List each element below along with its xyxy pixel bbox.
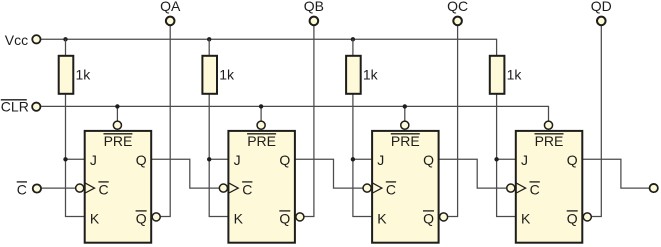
U1 pin C label <box>98 182 108 198</box>
svg-text:K: K <box>377 210 387 226</box>
junction dot CLR/PRE U3 <box>403 104 407 108</box>
U1 PRE bubble <box>113 121 121 129</box>
wire Q3bar to QC terminal <box>448 21 457 217</box>
wire R4 bottom to J/K tie of U4 <box>497 94 518 217</box>
junction dot J/K tie U3 <box>351 157 355 161</box>
svg-text:Vcc: Vcc <box>5 32 28 48</box>
Vcc label <box>5 32 28 48</box>
svg-text:K: K <box>521 210 531 226</box>
svg-text:Q: Q <box>423 210 434 226</box>
U4 pin Q <box>567 152 578 168</box>
wire J input U1 <box>66 158 87 160</box>
U1 Qbar bubble <box>152 213 160 221</box>
wire R1 bottom to J/K tie of U1 <box>66 94 87 217</box>
carry output terminal <box>650 184 658 192</box>
svg-text:CLR: CLR <box>1 98 29 114</box>
resistor R3 1k <box>346 56 379 94</box>
U2 PRE label <box>247 133 276 149</box>
U1 pin J <box>90 152 97 168</box>
U1 clock bubble <box>76 184 84 192</box>
U1 clock triangle <box>85 183 94 193</box>
flip-flop U4 <box>507 121 592 243</box>
Vcc terminal <box>32 35 40 43</box>
U4 pin Qbar <box>567 210 578 226</box>
resistor R2 1k <box>202 56 235 94</box>
U3 pin K <box>377 210 387 226</box>
svg-text:PRE: PRE <box>247 133 276 149</box>
resistor R1 1k <box>59 56 92 94</box>
output terminal QB <box>304 0 324 25</box>
flip-flop U1 <box>76 121 161 243</box>
junction dot Vcc/R1 <box>63 37 67 41</box>
svg-text:C: C <box>99 182 109 198</box>
U3 clock bubble <box>363 184 371 192</box>
U2 clock bubble <box>219 184 227 192</box>
U2 PRE bubble <box>257 121 265 129</box>
junction dot Vcc/R3 <box>351 37 355 41</box>
resistor R4 1k <box>490 56 523 94</box>
wire clock input to U1 <box>42 187 76 189</box>
svg-text:C: C <box>242 182 252 198</box>
svg-text:1k: 1k <box>76 67 92 83</box>
U4 pin K <box>521 210 531 226</box>
CLR label <box>1 98 29 114</box>
CLR terminal <box>32 103 40 111</box>
U4 pin C label <box>530 182 540 198</box>
svg-text:Q: Q <box>567 210 578 226</box>
U4 clock triangle <box>516 183 525 193</box>
junction dot J/K tie U4 <box>494 157 498 161</box>
wire Vcc rail <box>41 39 496 56</box>
svg-text:J: J <box>234 152 241 168</box>
wire PRE drop U1 <box>116 106 118 120</box>
svg-text:K: K <box>234 210 244 226</box>
U3 pin C label <box>386 182 396 198</box>
svg-text:C: C <box>17 182 27 198</box>
wire J input U2 <box>209 158 230 160</box>
output terminal QD <box>591 0 612 25</box>
U1 pin Q <box>136 152 147 168</box>
junction dot CLR/PRE U2 <box>259 104 263 108</box>
U3 pin J <box>377 152 384 168</box>
junction dot J/K tie U2 <box>207 157 211 161</box>
wire R3 top stub <box>352 39 354 56</box>
svg-text:1k: 1k <box>507 67 523 83</box>
U2 clock triangle <box>229 183 238 193</box>
U1 PRE label <box>104 133 133 149</box>
svg-text:J: J <box>377 152 384 168</box>
svg-text:QB: QB <box>304 0 324 14</box>
svg-text:Q: Q <box>423 152 434 168</box>
output terminal QC <box>447 0 468 25</box>
U3 PRE label <box>391 133 420 149</box>
output terminal QA <box>160 0 181 25</box>
flip-flop U4 body <box>516 131 583 243</box>
flip-flop U2 body <box>228 131 295 243</box>
wire Q4 to carry output <box>582 159 649 188</box>
U2 pin Q <box>279 152 290 168</box>
wire CLR rail <box>41 106 548 120</box>
svg-text:QD: QD <box>591 0 612 14</box>
flip-flop U3 <box>363 121 448 243</box>
wire R1 top stub <box>65 39 67 56</box>
svg-text:Q: Q <box>279 152 290 168</box>
clock input terminal <box>33 184 41 192</box>
wire Q1 to clock of U2 <box>151 159 219 188</box>
wire Q2 to clock of U3 <box>295 159 363 188</box>
U4 clock bubble <box>507 184 515 192</box>
svg-text:J: J <box>521 152 528 168</box>
U2 pin K <box>234 210 244 226</box>
junction dot CLR/PRE U1 <box>115 104 119 108</box>
flip-flop U3 body <box>372 131 439 243</box>
U4 PRE label <box>535 133 564 149</box>
svg-text:PRE: PRE <box>104 133 133 149</box>
svg-text:C: C <box>386 182 396 198</box>
svg-text:QC: QC <box>447 0 468 14</box>
U3 Qbar bubble <box>440 213 448 221</box>
wire PRE drop U2 <box>260 106 262 120</box>
svg-text:Q: Q <box>279 210 290 226</box>
wire R2 bottom to J/K tie of U2 <box>209 94 230 217</box>
svg-text:PRE: PRE <box>391 133 420 149</box>
U2 pin J <box>234 152 241 168</box>
svg-text:Q: Q <box>567 152 578 168</box>
svg-text:C: C <box>530 182 540 198</box>
U2 pin Qbar <box>279 210 290 226</box>
flip-flop U1 body <box>85 131 152 243</box>
svg-text:QA: QA <box>160 0 181 14</box>
svg-text:1k: 1k <box>363 67 379 83</box>
wire Q3 to clock of U4 <box>439 159 507 188</box>
U4 PRE bubble <box>544 121 552 129</box>
U4 pin J <box>521 152 528 168</box>
U3 clock triangle <box>373 183 382 193</box>
clock input label Cbar <box>17 182 27 198</box>
junction dot J/K tie U1 <box>63 157 67 161</box>
wire R2 top stub <box>208 39 210 56</box>
junction dot Vcc/R2 <box>207 37 211 41</box>
wire Q4bar to QD terminal <box>592 21 601 217</box>
flip-flop U2 <box>219 121 304 243</box>
svg-text:K: K <box>90 210 100 226</box>
svg-text:PRE: PRE <box>535 133 564 149</box>
U4 Qbar bubble <box>583 213 591 221</box>
U2 pin C label <box>242 182 252 198</box>
U2 Qbar bubble <box>296 213 304 221</box>
svg-text:Q: Q <box>136 210 147 226</box>
U3 pin Qbar <box>423 210 434 226</box>
svg-text:J: J <box>90 152 97 168</box>
wire Q2bar to QB terminal <box>305 21 314 217</box>
wire R3 bottom to J/K tie of U3 <box>353 94 374 217</box>
svg-text:Q: Q <box>136 152 147 168</box>
wire Q1bar to QA terminal <box>161 21 170 217</box>
U1 pin K <box>90 210 100 226</box>
svg-text:1k: 1k <box>219 67 235 83</box>
U1 pin Qbar <box>136 210 147 226</box>
wire PRE drop U3 <box>404 106 406 120</box>
wire J input U3 <box>353 158 374 160</box>
wire J input U4 <box>497 158 518 160</box>
U3 pin Q <box>423 152 434 168</box>
U3 PRE bubble <box>401 121 409 129</box>
